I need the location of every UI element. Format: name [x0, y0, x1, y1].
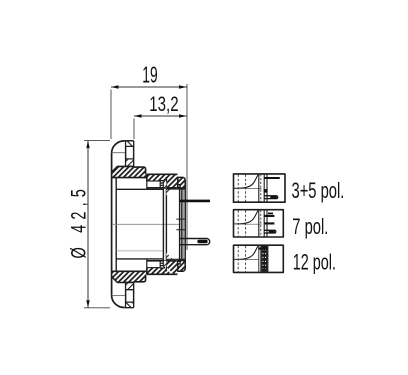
box3 mid line: [234, 259, 259, 261]
body left inner wall: [115, 178, 117, 272]
box2 mid line: [234, 223, 262, 225]
washer striped rect lower: [160, 261, 164, 268]
box2 verticals: [259, 210, 267, 237]
box3 contact strip: [261, 246, 267, 272]
label 7 pol.: [292, 215, 328, 240]
box3 dashed verticals: [238, 246, 245, 272]
band upper white pocket: [147, 181, 160, 188]
o-ring square upper: [177, 184, 181, 188]
label 12 pol.: [293, 250, 336, 275]
contact lines near center right: [176, 219, 185, 230]
svg-text:19: 19: [142, 63, 157, 88]
insert bottom line: [166, 258, 185, 260]
label 3+5 pol.: [292, 179, 345, 204]
collar lower outline: [112, 275, 146, 283]
bottom solder lug: [180, 239, 210, 245]
flange inner vertical line: [125, 141, 127, 308]
box3 S-curve: [234, 245, 259, 259]
box2 S-curve: [234, 210, 259, 224]
insert right wall: [179, 188, 181, 261]
box1 mid line: [234, 188, 262, 190]
collar upper outline: [112, 166, 146, 174]
svg-text:13,2: 13,2: [149, 91, 178, 115]
flange rim cell hatched bottom: [126, 282, 134, 290]
box2 pins: [268, 212, 273, 214]
box1 S-curve: [234, 174, 259, 188]
flange top edge: [124, 140, 133, 142]
flange face line bottom: [112, 295, 126, 297]
flange rim cell hatched2 top: [126, 159, 134, 166]
pol box 2: [234, 210, 284, 237]
pol box 3: [234, 245, 284, 272]
flange rim cell white top: [126, 146, 134, 159]
band lower pocket top line: [147, 267, 160, 269]
box2 bottom lug: [264, 230, 276, 233]
cap upper (hatched): [178, 177, 185, 188]
flange rim column right edge: [133, 141, 135, 308]
svg-text:3+5 pol.: 3+5 pol.: [292, 179, 345, 204]
svg-text:7 pol.: 7 pol.: [292, 215, 328, 240]
dimension 19 line: [111, 86, 187, 88]
flange front face (unhatched): [112, 141, 125, 308]
collar lower (hatched): [112, 271, 147, 282]
dimension dia 42,5 text (rotated): [67, 184, 90, 259]
right face inner lines: [181, 188, 183, 261]
insert hatch bottom: [164, 253, 173, 267]
lug slot hole: [199, 240, 206, 243]
band lower white pocket: [147, 261, 160, 268]
extension line left of 19: [110, 90, 112, 140]
body bottom edge: [112, 270, 147, 272]
flange bottom edge: [124, 307, 133, 309]
box1 contact notch: [264, 189, 268, 193]
band lower white sliver: [159, 260, 174, 275]
extension line bottom of 42,5: [84, 307, 110, 309]
collar upper (hatched): [112, 166, 147, 177]
box3 verticals: [259, 245, 261, 272]
pocket side verticals: [146, 181, 148, 268]
band upper pocket bottom line: [147, 180, 160, 182]
box2 dashed verticals: [238, 210, 245, 236]
svg-text:Ø 42,5: Ø 42,5: [67, 184, 90, 259]
insert left wall: [165, 177, 167, 271]
o-ring square lower: [177, 261, 181, 265]
flange rim cell white bottom: [126, 290, 134, 303]
cavity top line: [116, 188, 163, 190]
dimension 13,2 text: [149, 91, 178, 115]
extension line left of 13,2: [133, 119, 135, 140]
right face outer line: [184, 188, 186, 261]
flange rim cell hatched top backslash: [126, 141, 134, 147]
box1 top pin: [264, 177, 280, 179]
extension line right at x187: [186, 84, 188, 250]
box3 top bar: [258, 248, 267, 250]
band lower (hatched): [147, 261, 186, 275]
band upper white sliver: [159, 174, 174, 189]
cavity right wall: [162, 182, 164, 267]
top contact pin: [180, 200, 210, 203]
inner cavity line: [116, 250, 163, 252]
band upper (hatched): [147, 174, 186, 188]
box3 right vertical: [267, 246, 269, 273]
svg-text:12 pol.: 12 pol.: [293, 250, 336, 275]
dimension 13,2 line: [134, 115, 187, 117]
flange face line top: [112, 152, 126, 154]
dimension dia 42,5 vertical line: [87, 141, 89, 308]
band lower outline: [147, 261, 178, 275]
centerline: [112, 223, 179, 225]
flange rim cell hatched2 bottom backslash: [126, 302, 134, 307]
box1 dashed verticals: [238, 175, 245, 202]
box1 verticals: [259, 174, 267, 202]
extension line top of 42,5: [84, 140, 110, 142]
band upper outline: [147, 174, 178, 188]
insert hatch top: [164, 182, 173, 196]
cap lower (hatched): [178, 261, 185, 272]
body top edge: [112, 177, 147, 179]
washer striped rect upper: [160, 181, 164, 188]
cavity bottom line: [116, 258, 163, 260]
dimension 19 text: [142, 63, 157, 88]
pol box 1: [234, 174, 286, 202]
insert top line: [166, 188, 185, 190]
box1 bottom lug: [264, 196, 278, 199]
